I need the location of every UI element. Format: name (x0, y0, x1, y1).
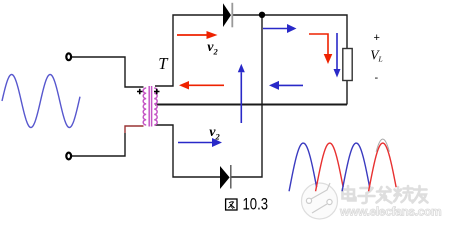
svg-text:+: + (374, 32, 380, 44)
svg-text:10.3: 10.3 (243, 195, 269, 214)
svg-text:-: - (375, 72, 379, 84)
svg-text:www.elecfans.com: www.elecfans.com (339, 205, 441, 219)
